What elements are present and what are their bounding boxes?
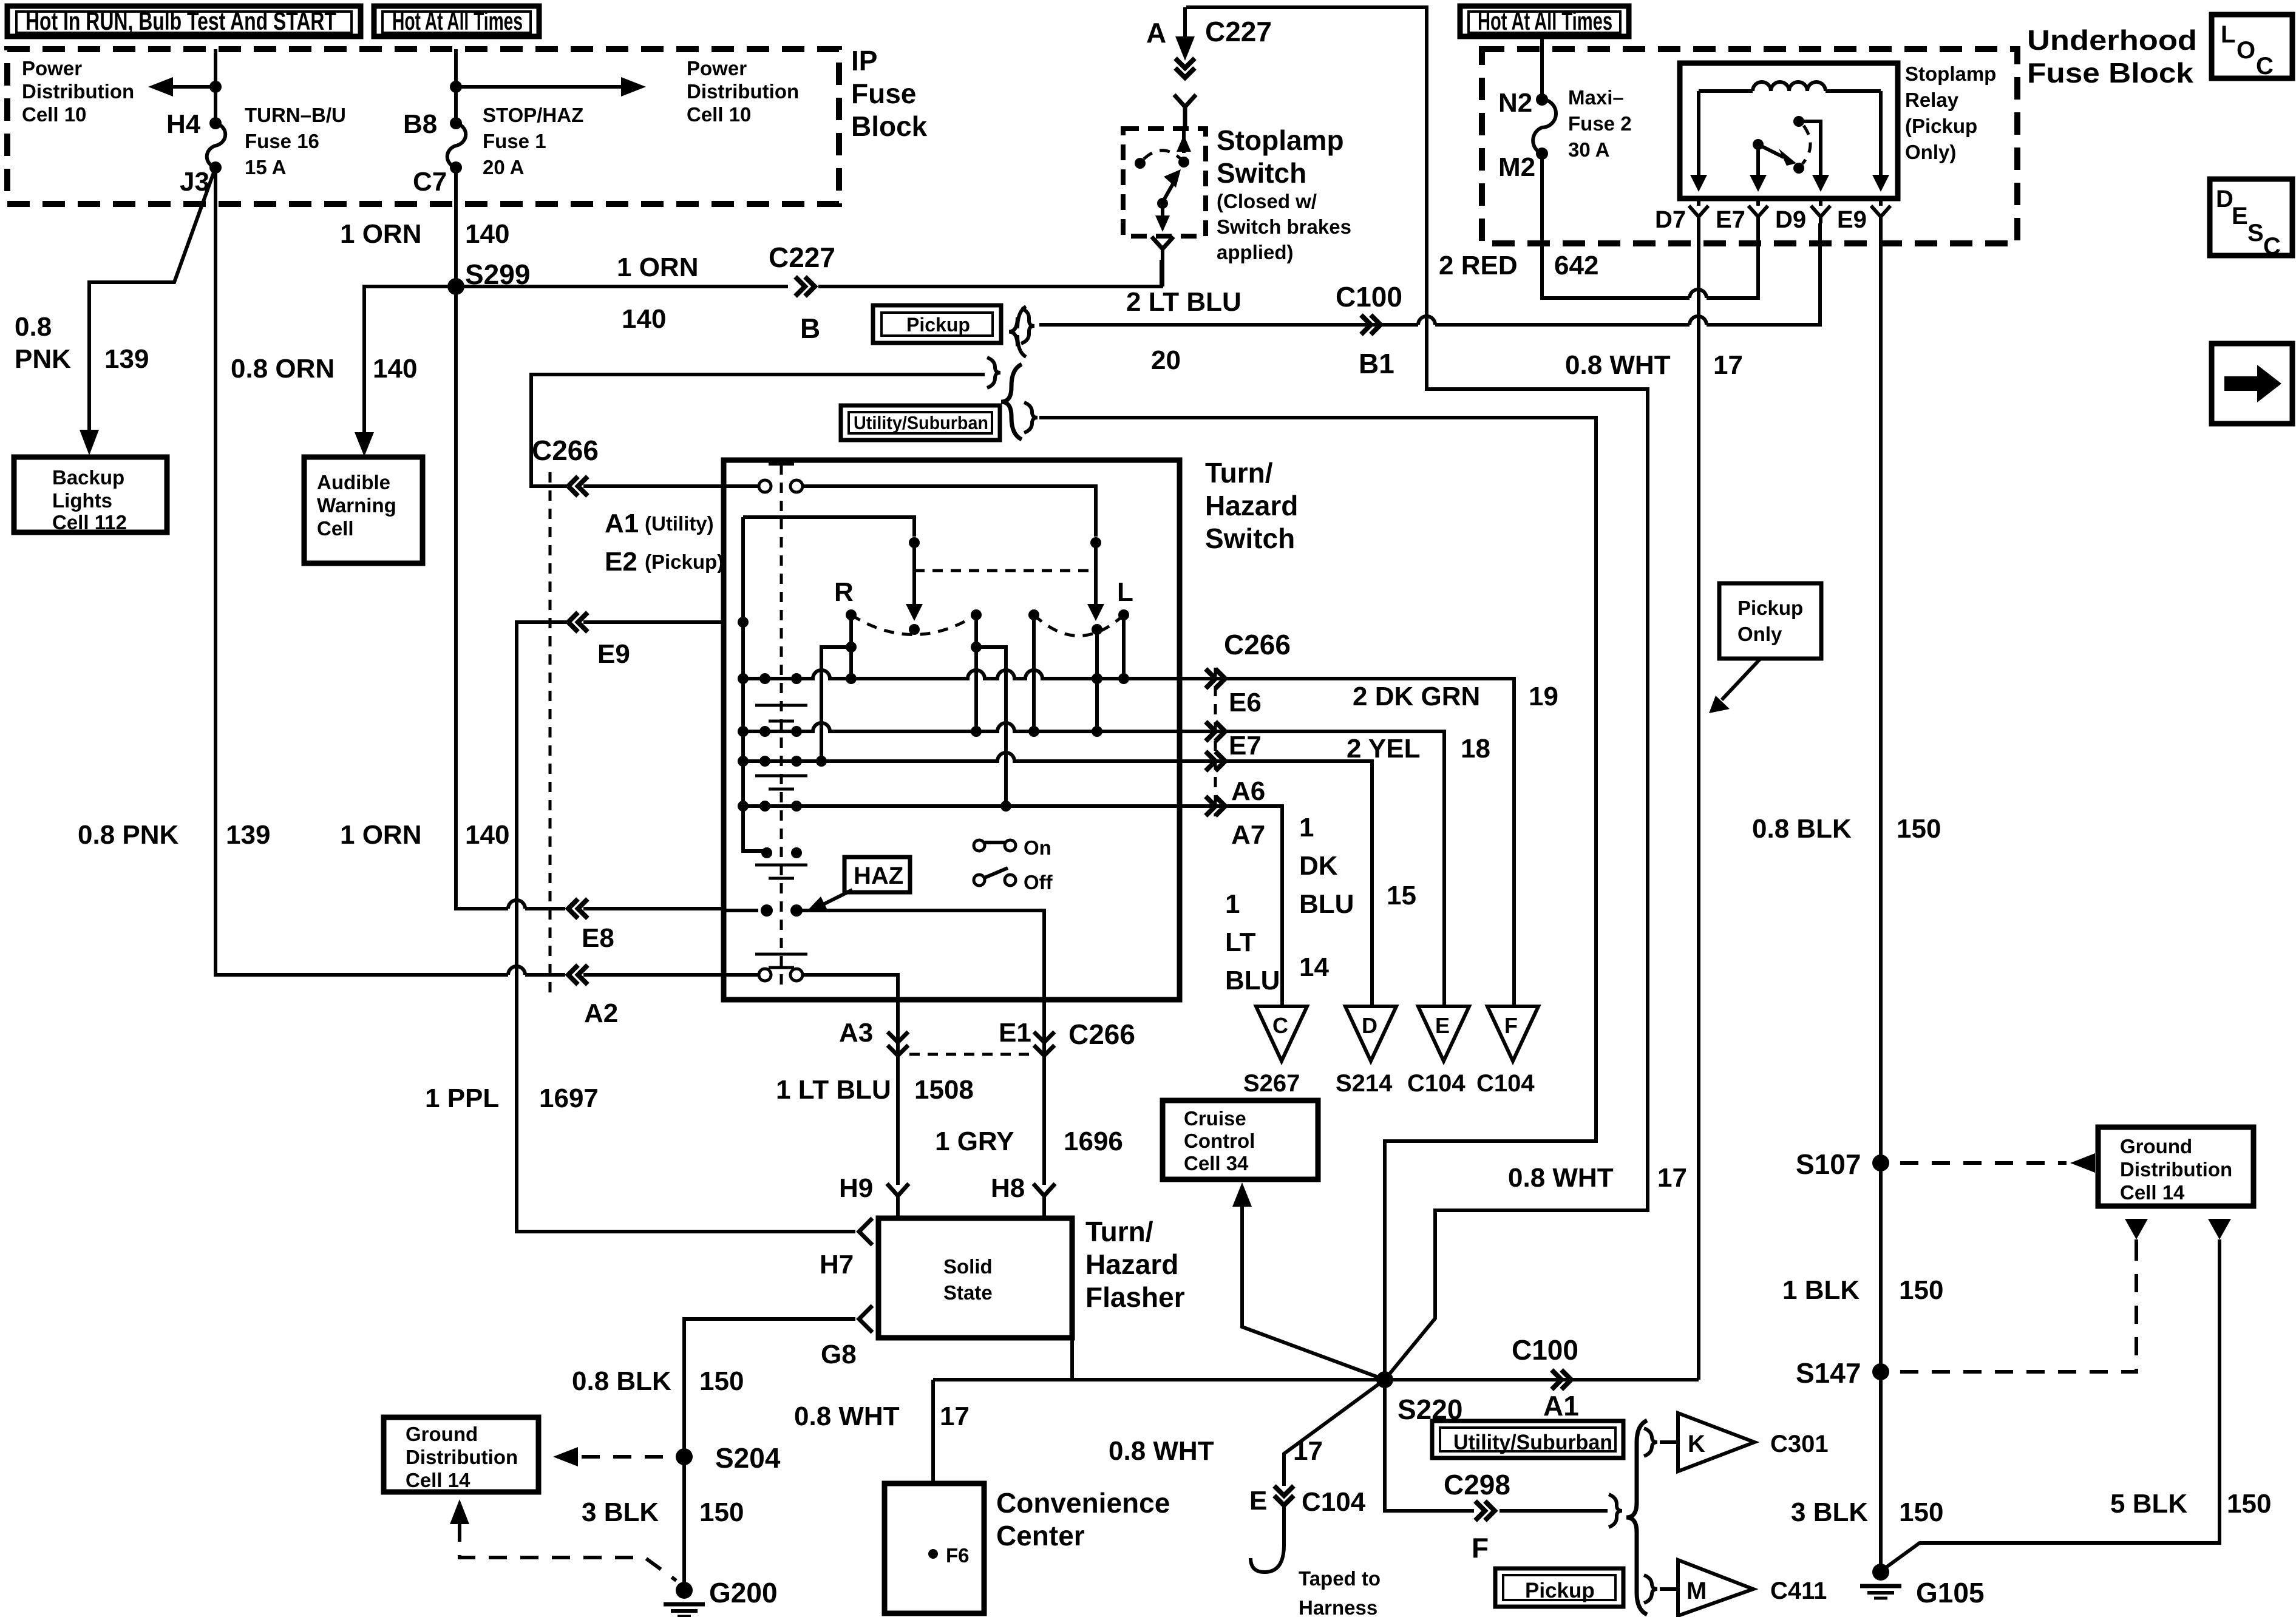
third contact drop wire — [1028, 615, 1039, 737]
svg-text:Block: Block — [851, 110, 928, 142]
svg-text:F: F — [1472, 1532, 1489, 1564]
flasher box — [878, 1218, 1072, 1338]
svg-text:Convenience: Convenience — [996, 1487, 1170, 1519]
svg-text:DK: DK — [1299, 851, 1338, 881]
component Convenience Center box — [885, 1483, 984, 1613]
ground G200 — [664, 1577, 778, 1616]
turn/hazard switch box — [724, 460, 1180, 1000]
connector G8 — [821, 1306, 872, 1369]
svg-text:H4: H4 — [166, 109, 201, 139]
svg-text:C100: C100 — [1336, 281, 1402, 313]
svg-text:Distribution: Distribution — [2120, 1158, 2232, 1181]
svg-text:20 A: 20 A — [483, 156, 524, 178]
svg-text:2 DK GRN: 2 DK GRN — [1353, 682, 1480, 711]
svg-text:Hazard: Hazard — [1085, 1249, 1178, 1280]
svg-text:C411: C411 — [1770, 1578, 1827, 1604]
svg-text:3 BLK: 3 BLK — [1791, 1497, 1868, 1527]
svg-text:139: 139 — [226, 820, 270, 850]
label C100 / B1 — [1336, 281, 1402, 379]
svg-text:14: 14 — [1299, 952, 1329, 982]
svg-text:D: D — [2216, 186, 2233, 212]
label Underhood Fuse Block — [2027, 24, 2197, 89]
svg-text:150: 150 — [1897, 814, 1941, 844]
svg-text:Only): Only) — [1905, 141, 1956, 163]
stoplamp switch internals — [1135, 129, 1191, 232]
svg-text:LT: LT — [1225, 927, 1256, 957]
connector E8 chevron — [568, 899, 588, 918]
switch row 4 (A6 out) — [743, 801, 1180, 812]
wire 2 LT BLU pickup to C100 to D9 — [1039, 223, 1820, 325]
dashed S147 route — [1900, 1252, 2136, 1372]
svg-text:(Pickup: (Pickup — [1905, 115, 1977, 137]
wire J3 diagonal to PNK — [89, 168, 216, 440]
component Pickup box (bottom) — [1495, 1568, 1623, 1607]
fuse STOP/HAZ Fuse 1 — [447, 123, 466, 168]
R contact drop wire — [816, 615, 857, 767]
component Ground Distribution Cell 14 box (right) — [2098, 1127, 2254, 1206]
On Off legend — [974, 836, 1053, 893]
svg-text:0.8 BLK: 0.8 BLK — [1752, 814, 1852, 844]
component Backup Lights Cell 112 box — [14, 457, 167, 534]
label STOP/HAZ Fuse 1 20 A — [483, 104, 583, 178]
label Stoplamp Relay (Pickup Only) — [1905, 63, 1996, 163]
connector A1/E2 chevron — [568, 476, 588, 496]
svg-text:Cell 14: Cell 14 — [406, 1469, 470, 1491]
svg-text:140: 140 — [373, 354, 417, 384]
svg-text:1: 1 — [1299, 813, 1314, 842]
svg-text:N2: N2 — [1498, 88, 1532, 118]
svg-text:1697: 1697 — [539, 1083, 599, 1113]
svg-text:0.8 WHT: 0.8 WHT — [794, 1402, 900, 1431]
brace M wire — [1644, 1575, 1657, 1603]
dashed link between R and L arms — [914, 569, 1096, 572]
svg-text:Pickup: Pickup — [906, 314, 970, 336]
node S204 — [676, 1442, 781, 1474]
svg-text:L: L — [1117, 577, 1133, 607]
node S220 — [1376, 1371, 1462, 1425]
connector C298 chevron — [1475, 1501, 1495, 1520]
node S107 — [1796, 1148, 1889, 1180]
label 0.8 WHT | 17 (E C104) — [1109, 1436, 1323, 1466]
svg-text:A2: A2 — [584, 998, 618, 1028]
svg-text:Hot In RUN, Bulb Test And STAR: Hot In RUN, Bulb Test And START — [25, 7, 336, 35]
svg-text:Ground: Ground — [2120, 1135, 2192, 1158]
svg-text:C301: C301 — [1770, 1431, 1829, 1457]
svg-text:5 BLK: 5 BLK — [2110, 1489, 2187, 1519]
turn contact dots row — [846, 609, 1129, 635]
svg-text:1 BLK: 1 BLK — [1782, 1275, 1860, 1305]
svg-text:Cruise: Cruise — [1184, 1107, 1246, 1130]
label C298 / F — [1444, 1469, 1510, 1564]
svg-text:Cell 10: Cell 10 — [687, 103, 751, 126]
svg-text:20: 20 — [1151, 345, 1181, 375]
svg-text:17: 17 — [1657, 1163, 1687, 1193]
svg-text:Fuse 16: Fuse 16 — [245, 130, 319, 152]
fuse TURN-B/U Fuse 16 — [207, 123, 225, 168]
label C100 / A1 — [1512, 1334, 1579, 1422]
svg-text:B1: B1 — [1359, 348, 1394, 379]
svg-text:0.8: 0.8 — [15, 312, 52, 342]
HAZ contact row — [724, 904, 1044, 997]
svg-text:1 ORN: 1 ORN — [340, 219, 421, 249]
connector C227 chevron B — [795, 277, 815, 296]
svg-text:Turn/: Turn/ — [1205, 457, 1273, 489]
svg-text:C227: C227 — [1205, 16, 1272, 47]
label Solid State — [943, 1255, 993, 1304]
svg-text:(Closed w/: (Closed w/ — [1217, 190, 1317, 212]
svg-text:150: 150 — [1899, 1275, 1943, 1305]
switch row 1 (C266 out) — [743, 670, 1180, 684]
label 1 LT BLU | 1508 — [776, 1075, 974, 1105]
wire E9 0.8 BLK down to G105 — [1879, 223, 1883, 1572]
HAZ label box and arrow — [807, 857, 910, 911]
svg-text:H9: H9 — [839, 1173, 873, 1203]
triangle E C104 — [1407, 1006, 1469, 1097]
wire flasher out to S220 — [933, 1338, 1385, 1483]
connector dashed line C266 right column — [1214, 668, 1217, 816]
label 3 BLK | 150 (left) — [582, 1497, 744, 1527]
triangle M C411 — [1660, 1560, 1827, 1616]
wire maxi-fuse top — [1540, 38, 1544, 100]
wire C7 down to S299 — [454, 168, 458, 286]
svg-text:R: R — [834, 577, 854, 607]
wire row3 out to D (1 DK BLU 15) — [1180, 751, 1372, 1005]
svg-text:C266: C266 — [532, 435, 599, 466]
brace utility wire — [1024, 402, 1038, 433]
svg-text:H8: H8 — [991, 1173, 1025, 1203]
label 1 ORN 140 (above S299) — [340, 219, 509, 249]
wire hook taped to harness — [1251, 1545, 1284, 1572]
arrow down from cell14 (dashed leg) — [2125, 1219, 2148, 1252]
svg-text:Fuse 1: Fuse 1 — [483, 130, 546, 152]
label 0.8 PNK 139 (upper) — [15, 312, 149, 374]
svg-text:150: 150 — [1899, 1497, 1943, 1527]
brace big bottom — [1626, 1420, 1647, 1615]
label Stoplamp Switch (Closed w/ Switch brakes applied) — [1217, 124, 1351, 263]
svg-text:Hot At All Times: Hot At All Times — [392, 7, 523, 35]
brace pickup — [1021, 308, 1034, 344]
brace big — [1001, 364, 1022, 439]
relay coil — [1699, 82, 1881, 91]
svg-text:S147: S147 — [1796, 1357, 1861, 1389]
switch bottom contact — [724, 969, 898, 997]
svg-text:Center: Center — [996, 1520, 1085, 1551]
svg-text:Switch: Switch — [1205, 523, 1295, 554]
connector A3 arrow+chevron — [888, 1000, 908, 1065]
underhood fuse block dashed box — [1482, 49, 2017, 243]
svg-text:Underhood: Underhood — [2027, 24, 2197, 56]
left bus vertical — [738, 517, 767, 851]
component Pickup label box (top) — [873, 305, 1001, 343]
svg-text:140: 140 — [465, 219, 509, 249]
svg-text:C298: C298 — [1444, 1469, 1510, 1500]
svg-text:15: 15 — [1387, 881, 1416, 910]
wire S220 down to C298 F — [1385, 1380, 1608, 1511]
svg-text:E7: E7 — [1229, 731, 1262, 761]
svg-text:139: 139 — [104, 344, 149, 374]
svg-text:140: 140 — [622, 304, 666, 334]
svg-text:Stoplamp: Stoplamp — [1217, 124, 1344, 156]
svg-text:Cell: Cell — [317, 517, 354, 540]
connector female Y below stoplamp switch — [1152, 237, 1173, 249]
label Turn/ Hazard Switch — [1205, 457, 1298, 554]
header box: Hot At All Times (right) — [1460, 6, 1629, 36]
component Cruise Control Cell 34 box — [1163, 1100, 1318, 1179]
mid contact drop wire — [971, 615, 1011, 812]
wire G8 to S204 — [684, 1319, 855, 1590]
svg-text:G8: G8 — [821, 1340, 857, 1369]
svg-text:HAZ: HAZ — [854, 863, 903, 889]
svg-text:Cell 112: Cell 112 — [52, 511, 127, 534]
triangle D S214 — [1336, 1006, 1396, 1097]
svg-text:S214: S214 — [1336, 1070, 1393, 1097]
svg-text:L: L — [2221, 21, 2235, 48]
svg-text:G200: G200 — [709, 1577, 778, 1609]
svg-text:Switch brakes: Switch brakes — [1217, 215, 1351, 238]
arrow to cruise control — [1232, 1182, 1385, 1380]
svg-text:applied): applied) — [1217, 241, 1294, 263]
svg-text:C104: C104 — [1476, 1070, 1535, 1097]
labels D7 E7 D9 E9 — [1655, 206, 1867, 233]
svg-text:1 ORN: 1 ORN — [340, 820, 421, 850]
svg-text:Taped to: Taped to — [1299, 1567, 1381, 1590]
IP fuse block dashed box — [7, 49, 839, 204]
svg-text:Turn/: Turn/ — [1085, 1216, 1153, 1247]
wire fuse16 top + arrow left — [148, 49, 222, 129]
svg-text:Power: Power — [22, 57, 82, 80]
boxes DESC — [2210, 179, 2292, 260]
svg-text:0.8 ORN: 0.8 ORN — [231, 354, 335, 384]
wire 2 RED 642 maxi-fuse to relay E7 — [1542, 154, 1758, 298]
svg-text:Hot At All Times: Hot At All Times — [1478, 7, 1612, 35]
svg-text:(Pickup): (Pickup) — [645, 551, 724, 573]
switch pair contacts row5 — [761, 847, 802, 858]
svg-text:S107: S107 — [1796, 1148, 1861, 1180]
node S147 — [1796, 1357, 1889, 1389]
svg-text:B: B — [800, 313, 820, 344]
svg-text:(Utility): (Utility) — [645, 512, 714, 535]
switch plate pairs on dashed line — [755, 705, 807, 968]
svg-text:D7: D7 — [1655, 206, 1686, 233]
svg-text:B8: B8 — [403, 109, 437, 139]
svg-text:C104: C104 — [1407, 1070, 1466, 1097]
svg-text:Only: Only — [1737, 623, 1782, 645]
label 0.8 WHT | 17 (top) — [1565, 350, 1743, 380]
svg-text:BLU: BLU — [1225, 966, 1280, 995]
dashed ground route G200 to cell14 — [450, 1499, 676, 1581]
wire S299 right to stoplamp switch — [456, 260, 1161, 286]
svg-text:30 A: 30 A — [1568, 138, 1609, 161]
svg-text:E: E — [1435, 1013, 1450, 1038]
svg-text:S: S — [2247, 220, 2264, 246]
svg-text:Solid: Solid — [943, 1255, 993, 1278]
svg-text:Utility/Suburban: Utility/Suburban — [854, 412, 988, 433]
svg-text:Ground: Ground — [406, 1423, 478, 1445]
svg-text:3 BLK: 3 BLK — [582, 1497, 659, 1527]
label 0.8 PNK 139 (lower) — [78, 820, 270, 850]
connector E1 arrow+chevron — [1034, 1000, 1055, 1065]
wire E9 to flasher H7 — [517, 622, 855, 1232]
svg-text:C266: C266 — [1224, 629, 1291, 660]
component Utility/Suburban box (bottom) — [1432, 1421, 1623, 1458]
svg-text:F: F — [1504, 1013, 1518, 1038]
svg-text:2 YEL: 2 YEL — [1347, 734, 1420, 764]
svg-text:E: E — [1249, 1486, 1267, 1516]
svg-text:0.8 WHT: 0.8 WHT — [1508, 1163, 1614, 1193]
label A1 (Utility) — [605, 509, 714, 538]
connector H9 — [839, 1173, 909, 1218]
svg-text:18: 18 — [1461, 734, 1490, 764]
svg-text:STOP/HAZ: STOP/HAZ — [483, 104, 583, 126]
svg-text:F6: F6 — [946, 1544, 970, 1567]
brace C298 wire — [1609, 1494, 1622, 1527]
svg-text:E: E — [2232, 203, 2248, 229]
wire fuse1 top + arrow right — [450, 49, 646, 129]
svg-text:1508: 1508 — [914, 1075, 974, 1105]
svg-text:Backup: Backup — [52, 466, 124, 489]
component Utility/Suburban label box (top) — [841, 405, 1000, 440]
box arrow symbol — [2212, 344, 2292, 424]
svg-text:G105: G105 — [1916, 1577, 1985, 1609]
svg-text:D9: D9 — [1775, 206, 1806, 233]
node S299 — [447, 278, 464, 295]
svg-text:IP: IP — [851, 45, 877, 76]
svg-text:17: 17 — [1713, 350, 1743, 380]
svg-text:C7: C7 — [413, 167, 447, 197]
svg-text:A6: A6 — [1231, 776, 1265, 806]
svg-text:1 ORN: 1 ORN — [617, 253, 698, 282]
svg-text:Lights: Lights — [52, 489, 112, 512]
connector C100 chevron B1 — [1361, 315, 1381, 334]
svg-text:Audible: Audible — [317, 471, 390, 493]
label 0.8 WHT | 17 (conv center) — [794, 1402, 970, 1431]
svg-text:A: A — [1146, 17, 1166, 49]
svg-text:M2: M2 — [1498, 152, 1535, 182]
svg-text:Warning: Warning — [317, 494, 396, 517]
boxes LOC — [2212, 15, 2292, 80]
connector dashed line C266 column — [549, 472, 552, 995]
svg-text:Distribution: Distribution — [22, 80, 134, 103]
svg-text:642: 642 — [1554, 251, 1598, 280]
svg-text:140: 140 — [465, 820, 509, 850]
svg-text:Cell 14: Cell 14 — [2120, 1181, 2185, 1204]
svg-text:Fuse: Fuse — [851, 78, 916, 109]
label Power Distribution Cell 10 (right) — [687, 57, 799, 126]
svg-text:Relay: Relay — [1905, 89, 1959, 111]
connector H7 — [820, 1218, 872, 1280]
label Power Distribution Cell 10 (left) — [22, 57, 134, 126]
wire S220 to C100 A1 to D7 — [1385, 1378, 1699, 1381]
wire A1 chevron to switch box — [583, 484, 724, 488]
wire S299 left branch to audible warning — [364, 286, 456, 443]
svg-text:E6: E6 — [1229, 688, 1262, 717]
svg-text:E1: E1 — [999, 1018, 1031, 1048]
connector E9 chevron — [568, 612, 588, 632]
label 2 YEL | 18 — [1347, 734, 1490, 764]
stoplamp switch dashed box — [1123, 129, 1206, 236]
connector E C104 down chevrons — [1274, 1486, 1294, 1545]
svg-text:E8: E8 — [582, 923, 614, 953]
dashed arrow S204 to ground distribution — [553, 1447, 663, 1466]
svg-text:Hazard: Hazard — [1205, 490, 1298, 521]
connector female Y into stoplamp switch — [1174, 95, 1196, 129]
label Convenience Center — [996, 1487, 1170, 1551]
svg-text:0.8 WHT: 0.8 WHT — [1565, 350, 1671, 380]
svg-text:BLU: BLU — [1299, 889, 1354, 919]
triangle C S267 — [1243, 1006, 1307, 1097]
svg-text:0.8 BLK: 0.8 BLK — [572, 1366, 671, 1396]
wire row4 out to C (1 LT BLU 14) — [1180, 796, 1282, 1005]
svg-text:1696: 1696 — [1064, 1127, 1123, 1156]
dashed connector link A3-E1 — [909, 1053, 1033, 1056]
svg-text:0.8 WHT: 0.8 WHT — [1109, 1436, 1214, 1466]
svg-text:Cell 10: Cell 10 — [22, 103, 86, 126]
label 0.8 WHT | 17 (mid) — [1508, 1163, 1687, 1193]
svg-text:O: O — [2237, 37, 2255, 64]
svg-text:2 RED: 2 RED — [1439, 251, 1518, 280]
dashed contact arcs — [851, 615, 1124, 636]
label Turn/ Hazard Flasher — [1085, 1216, 1185, 1313]
relay terminals D7 E7 D9 E9 — [1689, 198, 1890, 223]
brace A1 wire end — [987, 358, 1000, 388]
component Audible Warning Cell box — [304, 457, 423, 563]
label E2 (Pickup) — [605, 547, 724, 577]
svg-text:1 LT BLU: 1 LT BLU — [776, 1075, 891, 1105]
label 1 PPL 1697 — [425, 1083, 599, 1113]
svg-text:Fuse 2: Fuse 2 — [1568, 112, 1632, 135]
L right contact drop wire — [1118, 615, 1129, 684]
label IP Fuse Block — [851, 45, 928, 142]
wire A1 feed from brace — [531, 375, 985, 486]
svg-text:E9: E9 — [597, 639, 630, 669]
svg-text:Pickup: Pickup — [1525, 1579, 1595, 1602]
svg-text:A7: A7 — [1231, 820, 1265, 850]
relay coil leads with arrows — [1690, 91, 1889, 192]
svg-text:Stoplamp: Stoplamp — [1905, 63, 1996, 85]
svg-text:19: 19 — [1529, 682, 1558, 711]
label 1 ORN / 140 (wire) — [617, 253, 698, 334]
dashed S107 to ground cell — [1900, 1153, 2095, 1173]
arrow pickup only — [1709, 659, 1761, 713]
label 1 DK BLU | 15 — [1299, 813, 1416, 919]
svg-text:150: 150 — [699, 1497, 744, 1527]
label 2 DK GRN | 19 — [1353, 682, 1558, 711]
header box: Hot At All Times (left) — [374, 6, 539, 36]
svg-text:150: 150 — [699, 1366, 744, 1396]
svg-text:C100: C100 — [1512, 1334, 1578, 1366]
label 2 LT BLU / 20 — [1126, 287, 1241, 375]
L moving contact drop wire — [1092, 629, 1102, 737]
wire row1 out to F (2 DK GRN 19) — [1180, 669, 1514, 1005]
svg-text:1: 1 — [1225, 889, 1240, 919]
triangle K C301 — [1660, 1413, 1829, 1471]
svg-text:Switch: Switch — [1217, 157, 1306, 189]
svg-text:Pickup: Pickup — [1737, 597, 1803, 619]
svg-text:A1: A1 — [605, 509, 639, 538]
svg-text:1 PPL: 1 PPL — [425, 1083, 499, 1113]
svg-text:Fuse Block: Fuse Block — [2027, 57, 2193, 89]
connector H8 — [991, 1173, 1055, 1218]
ground G105 — [1860, 1564, 1985, 1609]
wire utility brace to S220 vertical — [1039, 418, 1596, 1380]
label 1 LT BLU | 14 — [1225, 889, 1329, 995]
brace K wire — [1644, 1428, 1657, 1456]
triangle F C104 — [1476, 1006, 1538, 1097]
header box: Hot In RUN, Bulb Test And START — [7, 6, 361, 36]
label 0.8 BLK | 150 — [1752, 814, 1941, 844]
wire 1 ORN down to E8 — [456, 286, 565, 909]
switch second feed line — [743, 517, 923, 621]
